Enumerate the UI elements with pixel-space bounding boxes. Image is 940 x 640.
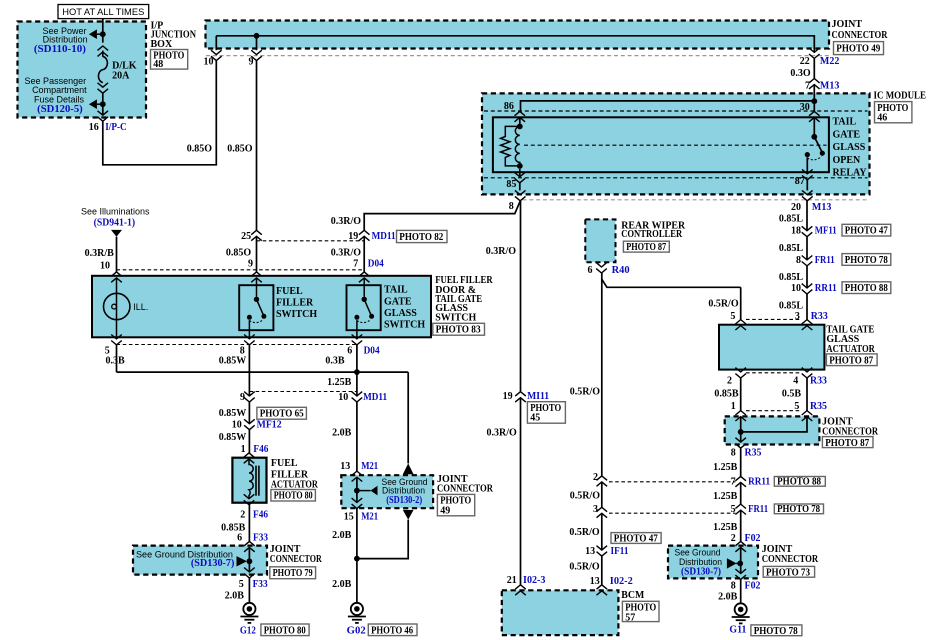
svg-text:PHOTO 87: PHOTO 87 — [825, 438, 869, 449]
svg-text:TAIL: TAIL — [833, 117, 857, 128]
pin 7 chevrons (switch box) — [359, 272, 370, 282]
svg-text:86: 86 — [504, 101, 514, 112]
wire pin 9 from bus — [256, 36, 258, 50]
R35 pin 1 5 labels — [731, 401, 827, 412]
fuel filler switch travel arc — [249, 320, 263, 323]
wire actuator pin2 to R35 pin1 (0.85B) — [740, 378, 742, 411]
svg-text:PHOTO 87: PHOTO 87 — [626, 242, 666, 253]
BCM label — [621, 590, 645, 601]
svg-text:I02-2: I02-2 — [610, 576, 633, 587]
wire FR11 to F02 pin2 (1.25B) — [740, 510, 742, 541]
fuel filler actuator pin 1 chevrons — [244, 453, 255, 463]
wire pin 6 down (0.3B) — [356, 345, 358, 396]
svg-text:CONNECTOR: CONNECTOR — [832, 30, 889, 41]
svg-text:F46: F46 — [253, 444, 268, 455]
svg-text:20A: 20A — [112, 71, 130, 82]
label 1.25B — [327, 377, 352, 388]
svg-text:M13: M13 — [820, 80, 839, 91]
F33 pin 6 chevrons — [244, 541, 255, 551]
svg-text:RR11: RR11 — [815, 283, 837, 294]
FR11 pin 5 chevrons — [735, 504, 746, 514]
connector dashed row MD11 (pins 9/10) — [249, 391, 357, 393]
svg-text:6: 6 — [347, 346, 352, 357]
svg-text:19: 19 — [503, 391, 513, 402]
pin 19 MD11 chevrons — [359, 230, 370, 240]
svg-text:MF12: MF12 — [257, 420, 282, 431]
fuel filler switch wire out — [248, 320, 250, 339]
TAIL GATE GLASS SWITCH label — [384, 284, 425, 330]
wire F33 pin5 to ground G12 (2.0B) — [248, 578, 250, 603]
svg-text:1.25B: 1.25B — [713, 522, 738, 533]
svg-text:2.0B: 2.0B — [225, 591, 245, 602]
pin 2 F46 labels — [240, 510, 268, 521]
svg-text:Compartment: Compartment — [32, 85, 87, 95]
connector dashed row D04 bottom (pins 5/8/6) — [117, 344, 357, 346]
F02 pin 2 chevrons — [735, 541, 746, 551]
svg-text:JOINT: JOINT — [832, 19, 863, 30]
svg-text:(SD130-7): (SD130-7) — [191, 558, 235, 569]
svg-text:46: 46 — [877, 113, 887, 124]
svg-text:45: 45 — [530, 413, 540, 424]
svg-text:PHOTO 78: PHOTO 78 — [754, 626, 798, 637]
wire RR11 to actuator pin 3 (0.85L) — [806, 294, 808, 320]
svg-text:22: 22 — [800, 56, 810, 67]
label 0.85O — [226, 247, 252, 258]
label 0.3R/B — [85, 248, 115, 259]
label 1.25B (3) — [713, 522, 738, 533]
connector dashed row MD11 (pins 25/19) — [257, 240, 365, 242]
pin 5 chevrons (switch box) — [111, 335, 122, 345]
tail gate glass switch arm contact — [369, 314, 374, 319]
svg-text:M21: M21 — [361, 461, 378, 472]
connector dashed row D04 top (pins 10/9/7) — [117, 269, 365, 271]
pin 85 chevrons — [515, 172, 526, 182]
svg-text:GLASS: GLASS — [384, 308, 417, 319]
PHOTO 80 box (actuator) — [271, 490, 316, 502]
svg-text:MD11: MD11 — [363, 392, 387, 403]
branch R40 to tail gate glass actuator — [602, 279, 741, 287]
label 0.3R/O (column) — [486, 246, 517, 257]
actuator pin 5 3 R33 labels — [730, 311, 827, 322]
wire MF12 to fuel filler actuator pin 1 (0.85W) — [248, 430, 250, 453]
svg-text:(SD110-10): (SD110-10) — [34, 44, 86, 55]
actuator pin 4 chevrons — [802, 368, 813, 378]
F02 arrow from See Ground Distribution — [727, 558, 740, 568]
svg-text:PHOTO 87: PHOTO 87 — [829, 355, 873, 366]
R35 pin 1 chevrons — [735, 411, 746, 421]
R35 internal node — [738, 429, 744, 435]
IC module internal dashed line (upper) — [484, 110, 868, 112]
G12 label — [240, 626, 256, 637]
svg-text:0.85L: 0.85L — [779, 243, 804, 254]
I/P junction box (top bus-bar section) — [206, 21, 830, 49]
svg-text:4: 4 — [793, 376, 798, 387]
label 2.0B (G11) — [718, 592, 738, 603]
svg-text:0.5R/O: 0.5R/O — [570, 490, 601, 501]
relay switch wire from pin 30 — [813, 117, 815, 134]
label 0.5R/O — [569, 527, 600, 538]
pins 5 8 6 D04 labels — [105, 346, 380, 357]
svg-text:PHOTO 80: PHOTO 80 — [274, 491, 313, 502]
triangle out of M21 joint connector — [403, 510, 414, 520]
svg-text:1.25B: 1.25B — [713, 462, 738, 473]
label 2.0B (G02) — [332, 579, 352, 590]
tail gate glass switch top contact — [362, 297, 367, 302]
tail gate glass switch arm — [364, 299, 371, 315]
svg-text:0.5R/O: 0.5R/O — [569, 527, 600, 538]
MD11 row2 labels — [240, 392, 387, 403]
svg-text:BOX: BOX — [151, 39, 173, 50]
connector chevrons below fuse — [98, 83, 109, 93]
RR11 pin 10 chevrons — [802, 284, 813, 294]
FUEL FILLER SWITCH label — [276, 286, 317, 320]
wire MF11 to FR11 (0.85L) — [806, 237, 808, 260]
svg-text:0.3R/O: 0.3R/O — [487, 427, 518, 438]
svg-text:R33: R33 — [811, 311, 828, 322]
svg-text:F46: F46 — [253, 510, 268, 521]
labels 0.85B 0.5B — [714, 388, 801, 399]
wire pin 10 into junction box bus — [215, 36, 217, 50]
wire inside M21 joint connector — [356, 477, 358, 503]
triangle into M21 joint connector (from 0.3B bus) — [403, 463, 414, 474]
svg-text:0.85O: 0.85O — [227, 143, 253, 154]
svg-text:GATE: GATE — [833, 129, 861, 140]
svg-text:HOT AT ALL TIMES: HOT AT ALL TIMES — [62, 7, 144, 17]
svg-text:13: 13 — [585, 546, 595, 557]
wire illuminations to switch pin 10 (0.3R/B) — [116, 237, 118, 272]
wire node to pin 16 — [102, 107, 104, 115]
labels 0.3B 0.85W 0.3B — [106, 356, 345, 367]
connector dashed row R33 top (pins 5/3) — [746, 318, 802, 320]
svg-text:0.85L: 0.85L — [779, 300, 804, 311]
svg-text:D04: D04 — [368, 259, 384, 270]
svg-text:0.85B: 0.85B — [714, 388, 739, 399]
RR11 pin 7 chevrons — [735, 476, 746, 486]
wire MI11 to BCM pin 21 (0.3R/O) — [520, 398, 522, 585]
pin 25 and 19 labels — [241, 231, 396, 242]
wire inside F02 joint connector — [740, 547, 742, 573]
fuel filler actuator box — [232, 458, 266, 503]
svg-text:F02: F02 — [745, 581, 761, 592]
pin 20 M13 labels — [791, 202, 831, 213]
svg-text:F33: F33 — [253, 532, 268, 543]
svg-text:8: 8 — [509, 201, 514, 212]
svg-text:0.85W: 0.85W — [219, 408, 247, 419]
svg-text:PHOTO 47: PHOTO 47 — [614, 534, 658, 545]
PHOTO 46 box (G02) — [368, 624, 417, 636]
svg-text:CONNECTOR: CONNECTOR — [270, 554, 323, 565]
svg-text:R35: R35 — [745, 447, 762, 458]
svg-text:9: 9 — [249, 56, 254, 67]
relay outline box — [493, 117, 829, 172]
pin 8 label (IC exit) — [509, 201, 514, 212]
relay switch arm end contact — [820, 151, 825, 156]
svg-text:0.3R/O: 0.3R/O — [486, 246, 517, 257]
pin 6 F33 labels — [237, 532, 268, 543]
svg-text:Distribution: Distribution — [679, 557, 722, 567]
svg-text:5: 5 — [730, 311, 735, 322]
JOINT CONNECTOR label (top right) — [832, 19, 889, 41]
IC module box — [482, 93, 870, 194]
svg-text:OPEN: OPEN — [833, 155, 862, 166]
pin 7 D04 labels — [353, 259, 384, 270]
joint connector M21 box (see ground distribution SD130-2) — [341, 475, 433, 508]
FUEL FILLER ACTUATOR label — [271, 458, 319, 491]
svg-text:6: 6 — [237, 532, 242, 543]
PHOTO 73 box — [763, 566, 814, 578]
pin 13 IF11 labels — [585, 546, 628, 557]
wire I/P-C pin16 down, right, up to I/P pin 10 — [103, 61, 217, 165]
wire pin 87 to IC module exit — [806, 180, 808, 191]
relay pin labels — [504, 101, 810, 190]
wire MD11 pin10 down (2.0B) — [356, 402, 358, 471]
svg-text:2.0B: 2.0B — [332, 530, 352, 541]
PHOTO 45 box — [527, 402, 565, 424]
pin 9 label (switch box) — [248, 259, 253, 270]
IC module internal dashed line (lower) — [484, 177, 868, 179]
PHOTO 49 box (M21) — [437, 494, 474, 516]
node (power distribution tap) — [100, 31, 106, 37]
illumination lamp ILL. — [104, 278, 130, 339]
label 1.25B (2) — [713, 491, 738, 502]
F33 ground distribution node — [247, 558, 253, 564]
pin 10 label (switch box) — [100, 260, 110, 271]
wire pin2 to pin3 (0.5R/O) — [601, 482, 603, 508]
gray connector line under IC module — [523, 199, 870, 201]
fuel filler switch arm contact — [261, 314, 266, 319]
wire fuse to lower node — [102, 93, 104, 101]
fuel filler actuator pin 2 chevrons — [244, 494, 255, 504]
relay switch arm — [814, 137, 822, 152]
MI11 pin 19 chevrons — [515, 392, 526, 402]
svg-text:2.0B: 2.0B — [332, 428, 352, 439]
svg-text:0.85O: 0.85O — [226, 247, 252, 258]
pin 10 chevrons (switch box) — [111, 272, 122, 282]
connector dashed row R35 (pins 1/5) — [746, 410, 802, 412]
I/P junction box (left fuse section) — [18, 22, 147, 118]
relay coil top node — [517, 124, 523, 130]
svg-text:6: 6 — [588, 265, 593, 276]
BCM box — [502, 590, 619, 635]
tail gate glass switch wire out — [356, 320, 358, 339]
ground G02 — [348, 603, 366, 623]
see illuminations triangle — [111, 230, 122, 237]
PHOTO 80 box (G12) — [261, 624, 309, 636]
pin 7 RR11 labels — [731, 477, 771, 488]
TAIL GATE GLASS ACTUATOR label — [826, 324, 875, 355]
pin 2 F02 labels — [731, 533, 761, 544]
wire actuator pin4 to R35 pin5 (0.5B) — [806, 378, 808, 411]
I/P JUNCTION BOX label — [151, 21, 197, 51]
wire pin 85 to IC module exit — [519, 183, 521, 191]
svg-text:85: 85 — [506, 179, 516, 190]
PHOTO 57 box — [622, 601, 659, 623]
pin 2 chevrons (I02-2 column) — [597, 476, 608, 486]
fuse D/LK 20A symbol — [98, 57, 107, 83]
JOINT CONNECTOR label (R35) — [822, 417, 879, 438]
label 0.85L (3) — [779, 272, 804, 283]
label 2.0B (G12) — [225, 591, 245, 602]
svg-text:Fuse Details: Fuse Details — [34, 94, 85, 104]
svg-text:2: 2 — [593, 472, 598, 483]
I/P junction box texts — [25, 26, 137, 133]
svg-text:TAIL: TAIL — [384, 284, 408, 295]
svg-text:0.3R/O: 0.3R/O — [331, 247, 362, 258]
svg-text:7: 7 — [353, 259, 358, 270]
wire pin 8 down (0.85W) — [248, 345, 250, 396]
pin 25 chevrons — [251, 230, 262, 240]
svg-text:49: 49 — [440, 506, 450, 517]
svg-text:0.5R/O: 0.5R/O — [569, 562, 600, 573]
PHOTO 82 box — [397, 230, 448, 243]
pin 3 label — [593, 504, 598, 515]
svg-text:25: 25 — [241, 231, 251, 242]
pin 15 M21 labels — [344, 512, 379, 523]
svg-text:7: 7 — [731, 477, 736, 488]
pin 7 M13 connector chevrons — [809, 79, 820, 89]
pin 8 FR11 labels — [796, 255, 835, 266]
pin 9 chevrons (switch box) — [251, 272, 262, 282]
svg-text:FR11: FR11 — [815, 255, 835, 266]
FR11 pin 8 chevrons — [802, 256, 813, 266]
svg-text:48: 48 — [153, 59, 163, 70]
wire 0.3R/O from IC pin 8 down to MI11 — [520, 201, 522, 392]
label 2.0B (M21 mid) — [332, 530, 352, 541]
pin 10 connector chevrons — [211, 50, 222, 60]
svg-text:5: 5 — [794, 401, 799, 412]
svg-text:0.85L: 0.85L — [779, 214, 804, 225]
label 2.0B (M21 top) — [332, 428, 352, 439]
PHOTO 48 box — [151, 50, 188, 71]
M21 See Ground Distribution text — [382, 477, 428, 506]
svg-text:0.5B: 0.5B — [782, 388, 802, 399]
wire FR11 to RR11 (0.85L) — [806, 266, 808, 288]
pin 22 M22 connector chevrons — [809, 48, 820, 58]
svg-text:13: 13 — [590, 576, 600, 587]
svg-text:PHOTO 88: PHOTO 88 — [777, 477, 821, 488]
svg-text:2: 2 — [240, 510, 245, 521]
wire pin 5 to 0.3B bus — [116, 345, 118, 372]
wire MD11 pin9 to MF12 (0.85W) — [248, 402, 250, 424]
label 0.85W — [219, 408, 247, 419]
MF12 labels — [232, 420, 282, 431]
M21 pin 15 chevrons — [352, 498, 363, 508]
PHOTO 87 box (rear wiper) — [623, 241, 669, 253]
svg-text:0.3R/B: 0.3R/B — [85, 248, 115, 259]
IC MODULE label — [874, 91, 927, 102]
fuel filler switch output contact — [247, 315, 252, 320]
gray connector line under I/P junction box — [206, 55, 829, 57]
svg-text:0.3B: 0.3B — [106, 356, 126, 367]
svg-text:F02: F02 — [745, 533, 761, 544]
svg-text:10: 10 — [204, 56, 214, 67]
actuator pin 2 4 R33 labels — [727, 376, 827, 387]
svg-text:9: 9 — [248, 259, 253, 270]
pin 21 I02-3 labels — [507, 575, 546, 586]
tail gate glass switch travel arc — [357, 320, 371, 323]
svg-text:GLASS: GLASS — [833, 142, 866, 153]
wire IF11 to BCM pin 13 (0.5R/O) — [601, 556, 603, 585]
joint connector F02 box (see ground distribution SD130-7) — [668, 546, 758, 579]
G02 label — [347, 626, 366, 637]
PHOTO 87 box (R35) — [822, 437, 873, 449]
wire node to fusible-link connector — [102, 37, 104, 43]
pin 8 R35 labels — [731, 447, 762, 458]
pin 19 MI11 labels — [503, 391, 550, 402]
IC module internal wire pin30 to coil pin86 — [521, 101, 815, 112]
PHOTO 88 box (RR11 pin7) — [774, 477, 825, 488]
M21 arrow to See Ground Distribution — [359, 486, 377, 496]
PHOTO 78 box (FR11) — [842, 254, 891, 266]
pin 86 chevrons — [515, 111, 526, 121]
See Illuminations label — [81, 207, 150, 229]
svg-text:10: 10 — [338, 392, 348, 403]
svg-text:0.85O: 0.85O — [187, 143, 213, 154]
F33 arrow from See Ground Distribution — [237, 556, 247, 566]
svg-text:10: 10 — [791, 283, 801, 294]
relay switch common contact — [811, 134, 817, 140]
svg-text:7: 7 — [805, 80, 810, 91]
JOINT CONNECTOR label (M21) — [437, 474, 494, 495]
TAIL GATE GLASS OPEN RELAY label — [833, 117, 868, 179]
svg-text:CONNECTOR: CONNECTOR — [437, 484, 494, 495]
svg-text:(SD120-5): (SD120-5) — [37, 104, 83, 115]
svg-text:2: 2 — [731, 533, 736, 544]
svg-text:3: 3 — [593, 504, 598, 515]
JOINT CONNECTOR label (F02) — [762, 544, 819, 565]
F33 pin 5 chevrons — [244, 568, 255, 578]
svg-text:MD11: MD11 — [372, 231, 396, 242]
pin 9 connector chevrons — [251, 50, 262, 60]
F33 See Ground Distribution text — [136, 550, 234, 569]
svg-text:0.85L: 0.85L — [779, 272, 804, 283]
svg-text:20: 20 — [791, 202, 801, 213]
svg-text:PHOTO 79: PHOTO 79 — [273, 568, 313, 579]
relay switch output contact — [805, 152, 810, 157]
label 0.85B — [221, 523, 246, 534]
svg-text:18: 18 — [791, 226, 801, 237]
svg-text:PHOTO 78: PHOTO 78 — [777, 504, 820, 515]
pin 18 MF11 labels — [791, 226, 837, 237]
tail gate glass switch output contact — [354, 315, 359, 320]
MF11 pin 18 chevrons — [802, 226, 813, 236]
wire branch down to actuator pin 5 — [740, 287, 742, 319]
PHOTO 78 box (G11) — [751, 625, 802, 637]
wire R35 pin8 to RR11 pin7 (1.25B) — [740, 448, 742, 476]
pin 8 F02 labels — [731, 581, 761, 592]
fuel filler door / tail gate glass switch box — [92, 276, 431, 338]
M13 wire pin 20 to MF11 (0.85L) — [806, 201, 808, 231]
svg-text:PHOTO 49: PHOTO 49 — [836, 43, 880, 54]
svg-text:2.0B: 2.0B — [332, 579, 352, 590]
pin 20 exit chevrons — [802, 190, 813, 200]
pin 5 F33 labels — [239, 579, 268, 590]
M21 ground distribution node — [354, 488, 360, 494]
wire M21 pin15 to ground G02 (2.0B) — [356, 509, 358, 603]
svg-text:2: 2 — [727, 376, 732, 387]
wire pin 25 to switch pin 9 — [256, 236, 258, 272]
svg-text:FUEL: FUEL — [271, 458, 298, 469]
rear wiper controller pin 6 chevrons — [596, 263, 607, 273]
0.3B bus wire — [117, 371, 409, 373]
svg-text:MI11: MI11 — [527, 391, 549, 402]
REAR WIPER CONTROLLER label — [621, 221, 686, 241]
PHOTO 79 box — [270, 567, 316, 579]
svg-text:GATE: GATE — [384, 296, 412, 307]
svg-text:PHOTO 78: PHOTO 78 — [845, 255, 888, 266]
wire inside F33 joint connector — [248, 547, 250, 572]
MD11 pin 9 chevrons — [244, 392, 255, 402]
